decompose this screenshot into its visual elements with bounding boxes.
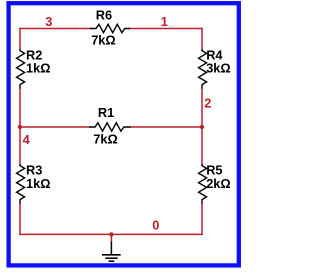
ground (102, 234, 121, 261)
wire left middle vertical (node 4 net) (19, 89, 21, 165)
svg-text:7kΩ: 7kΩ (93, 132, 118, 147)
wire middle horizontal right of R1 (131, 126, 202, 128)
svg-text:3kΩ: 3kΩ (206, 61, 231, 76)
wire left lower vertical (19, 204, 21, 235)
svg-text:1kΩ: 1kΩ (26, 61, 51, 76)
wire right upper vertical (201, 29, 203, 50)
svg-text:4: 4 (23, 132, 31, 147)
svg-text:3: 3 (45, 14, 52, 29)
wire right lower vertical (201, 204, 203, 235)
svg-text:1kΩ: 1kΩ (26, 176, 51, 191)
wire bottom horizontal (node 0 net) (20, 233, 202, 235)
resistor R5 2kOhm (199, 163, 231, 204)
svg-text:R1: R1 (98, 105, 114, 120)
wire top right segment (node 1 net) (130, 28, 202, 30)
resistor R2 1kOhm (17, 47, 51, 88)
node 2 junction (200, 125, 204, 129)
resistor R1 7kOhm (89, 105, 131, 147)
wire right middle vertical (node 2 net) (201, 89, 203, 165)
wire top left segment (node 3 net) (20, 28, 90, 30)
svg-text:2: 2 (204, 95, 211, 110)
svg-text:1: 1 (161, 14, 168, 29)
resistor R4 3kOhm (199, 47, 231, 88)
resistor R6 7kOhm (90, 7, 130, 47)
wire left upper vertical (19, 29, 21, 50)
svg-text:R6: R6 (96, 7, 112, 22)
node 4 junction (18, 125, 22, 129)
svg-text:7kΩ: 7kΩ (91, 33, 116, 48)
resistor R3 1kOhm (17, 163, 51, 204)
svg-text:2kΩ: 2kΩ (206, 176, 231, 191)
wire middle horizontal left of R1 (20, 126, 89, 128)
svg-text:0: 0 (152, 217, 159, 232)
ground junction (109, 232, 113, 236)
